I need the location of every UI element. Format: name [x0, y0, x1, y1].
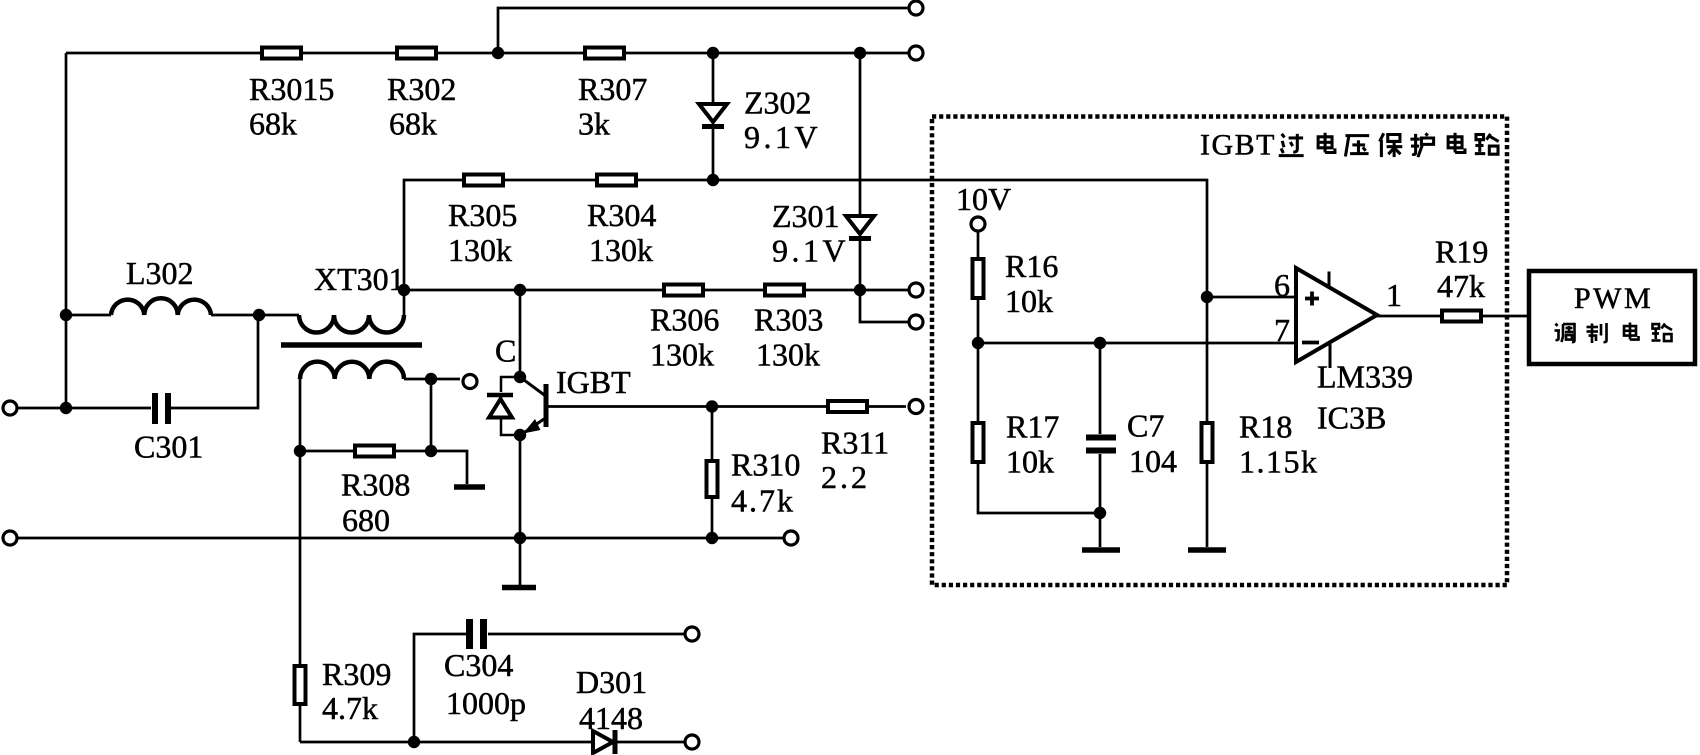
node C304 branch bottom	[408, 736, 420, 748]
label Z302 9.1V	[744, 85, 821, 156]
label C7 104	[1127, 408, 1177, 480]
node C7 top	[1094, 337, 1106, 349]
svg-text:R308: R308	[341, 467, 410, 503]
node C7 bottom	[1094, 507, 1106, 519]
svg-text:1: 1	[1386, 277, 1402, 313]
svg-text:R307: R307	[578, 71, 647, 107]
RESISTOR BOXES	[262, 48, 1481, 705]
wire bottom rail	[17, 537, 783, 540]
resistor R303	[765, 285, 804, 296]
resistor R305	[464, 175, 503, 186]
node Z301 top	[854, 47, 866, 59]
terminal fourth rail	[909, 283, 923, 297]
terminal D301	[685, 735, 699, 749]
wire emitter ground stem	[519, 538, 522, 585]
resistor R304	[597, 175, 636, 186]
svg-text:R310: R310	[731, 447, 800, 483]
ground below R308	[454, 484, 485, 490]
svg-text:6: 6	[1274, 267, 1290, 303]
svg-text:D301: D301	[576, 664, 647, 700]
svg-text:68k: 68k	[249, 106, 297, 142]
svg-text:L302: L302	[126, 255, 194, 291]
svg-text:1.15k: 1.15k	[1239, 444, 1319, 480]
svg-text:680: 680	[342, 502, 390, 538]
node IGBT emitter	[514, 429, 526, 441]
svg-text:130k: 130k	[650, 337, 714, 373]
wire IGBT gate to R311 terminal	[546, 405, 906, 408]
svg-text:47k: 47k	[1437, 268, 1485, 304]
svg-text:R3015: R3015	[249, 71, 334, 107]
node IGBT collector	[514, 371, 526, 383]
label R303 130k	[754, 302, 823, 373]
wire IGBT collector vertical	[519, 290, 522, 377]
terminal bottom rail right	[784, 531, 798, 545]
label Z301 9.1V	[772, 198, 849, 269]
terminal gate connector	[463, 375, 477, 389]
wire IGBT emitter vertical	[519, 435, 522, 538]
svg-text:1000p: 1000p	[446, 685, 526, 721]
svg-text:9.1V: 9.1V	[744, 119, 821, 155]
wire third rail (R305/R304 to comparator + input)	[404, 180, 1207, 297]
wire Z302 branch	[712, 53, 715, 180]
svg-text:10k: 10k	[1005, 283, 1053, 319]
svg-text:R19: R19	[1435, 234, 1488, 270]
transformer XT301 primary winding	[299, 315, 404, 333]
capacitor C7 plates	[1086, 435, 1116, 454]
svg-text:C301: C301	[134, 429, 203, 465]
wire comparator plus input	[1207, 296, 1296, 299]
label R3015 68k	[249, 71, 334, 142]
label R17 10k	[1006, 409, 1059, 480]
label C304 1000p	[444, 647, 526, 721]
svg-text:2.2: 2.2	[821, 459, 870, 495]
label R16 10k	[1005, 248, 1058, 319]
wire Z301 branch	[860, 53, 908, 322]
wire XT301 primary to rail	[403, 290, 406, 315]
resistor R19	[1442, 311, 1481, 322]
svg-text:C304: C304	[444, 647, 513, 683]
resistor R18	[1202, 423, 1213, 462]
svg-text:104: 104	[1129, 443, 1177, 479]
wire C304 branch	[414, 634, 684, 742]
transformer XT301 core bar	[281, 342, 422, 348]
resistor R302	[397, 48, 436, 59]
wire C7 ground stem	[1099, 513, 1102, 547]
terminal bottom rail left	[3, 531, 17, 545]
wire fourth rail (collector rail)	[404, 289, 908, 292]
resistor R309	[295, 666, 306, 704]
svg-text:C: C	[495, 333, 516, 369]
wire L302 to XT301 primary	[259, 314, 299, 317]
label title IGBT over-voltage protection	[1200, 129, 1499, 162]
svg-text:130k: 130k	[448, 232, 512, 268]
label R18 1.15k	[1239, 409, 1319, 480]
svg-text:R302: R302	[387, 71, 456, 107]
resistor R306	[664, 285, 703, 296]
svg-text:4.7k: 4.7k	[731, 483, 795, 519]
node collector rail / IGBT branch	[514, 284, 526, 296]
transistor Q1 IGBT with body diode	[487, 377, 546, 435]
IGBT protection dotted box	[932, 117, 1507, 586]
svg-text:LM339: LM339	[1317, 359, 1413, 395]
wire R17 branch	[978, 300, 1100, 513]
svg-text:R17: R17	[1006, 409, 1059, 445]
label R19 47k	[1435, 234, 1488, 305]
ground below IGBT emitter	[502, 585, 536, 591]
node top rail / R302 junction	[492, 47, 504, 59]
label LM339 IC3B	[1317, 359, 1413, 436]
resistor R310	[707, 461, 718, 497]
node R16/R17 minus input	[972, 337, 984, 349]
wire comparator minus rail	[978, 342, 1296, 345]
wire bottom-most rail	[300, 741, 684, 744]
node Z302 bottom on third rail	[707, 174, 719, 186]
svg-text:4148: 4148	[579, 700, 643, 736]
wire second rail	[66, 52, 908, 55]
node Z301 bottom on fourth rail	[854, 284, 866, 296]
label D301 4148	[576, 664, 647, 736]
svg-text:10k: 10k	[1006, 444, 1054, 480]
svg-text:10V: 10V	[956, 181, 1011, 217]
svg-text:IC3B: IC3B	[1317, 400, 1386, 436]
wire C301 leads	[17, 315, 258, 408]
label R309 4.7k	[322, 656, 391, 726]
node R310 bottom	[706, 532, 718, 544]
svg-text:C7: C7	[1127, 408, 1164, 444]
label R306 130k	[650, 302, 719, 373]
ground below R18	[1188, 547, 1226, 553]
label PWM modulation circuit	[1555, 282, 1673, 343]
terminal 10V supply	[971, 217, 985, 231]
zener diode Z302	[699, 104, 727, 127]
svg-text:XT301: XT301	[314, 261, 405, 297]
node gate / R310 top	[706, 400, 718, 412]
wire left vertical bus	[65, 53, 68, 408]
wire R308 row	[300, 451, 467, 484]
label R302 68k	[387, 71, 456, 142]
terminal top rail	[909, 1, 923, 15]
terminal C304	[685, 627, 699, 641]
wire top rail to terminal	[498, 8, 908, 53]
terminal C301 left	[3, 401, 17, 415]
ground below C7	[1082, 547, 1120, 553]
wire R18 branch to ground	[1206, 297, 1209, 547]
svg-text:R305: R305	[448, 197, 517, 233]
svg-text:R18: R18	[1239, 409, 1292, 445]
label R310 4.7k	[731, 447, 800, 519]
wire comparator output to PWM	[1377, 315, 1527, 318]
svg-text:R311: R311	[821, 425, 889, 461]
wire L302 leads	[66, 314, 259, 317]
svg-text:Z301: Z301	[772, 198, 840, 234]
node Z302 top	[707, 47, 719, 59]
svg-text:R16: R16	[1005, 248, 1058, 284]
wire XT301 secondary to gate connector	[404, 378, 460, 381]
capacitor C304 plates	[466, 619, 487, 649]
PWM block box	[1529, 271, 1695, 364]
resistor R16	[973, 259, 984, 298]
zener diode Z301	[846, 216, 874, 239]
transformer XT301 secondary winding	[300, 362, 404, 379]
wire C7 branch	[1099, 343, 1102, 513]
resistor R308	[355, 446, 394, 457]
wire secondary left vertical down through R309	[299, 379, 302, 742]
svg-text:3k: 3k	[578, 106, 610, 142]
svg-text:68k: 68k	[389, 106, 437, 142]
svg-text:R304: R304	[587, 197, 656, 233]
node R308 left	[294, 445, 306, 457]
op-amp U1 LM339 triangle	[1296, 268, 1377, 368]
svg-text:IGBT: IGBT	[556, 364, 631, 400]
node XT301 primary top	[398, 284, 410, 296]
svg-text:R303: R303	[754, 302, 823, 338]
node C301 left	[60, 402, 72, 414]
svg-text:IGBT: IGBT	[1200, 129, 1276, 162]
terminal second rail	[909, 46, 923, 60]
label R308 680	[341, 467, 410, 539]
inductor L302	[111, 298, 211, 315]
node emitter on bottom rail	[514, 532, 526, 544]
svg-text:7: 7	[1274, 312, 1290, 348]
svg-text:R306: R306	[650, 302, 719, 338]
svg-text:PWM: PWM	[1574, 282, 1653, 315]
node L302 left	[60, 309, 72, 321]
resistor R311	[828, 401, 867, 412]
capacitor C301 plates	[152, 393, 171, 424]
node L302 right	[253, 309, 265, 321]
node plus input / R18 top	[1201, 291, 1213, 303]
label R311 2.2	[821, 425, 889, 496]
terminal gate rail	[909, 400, 923, 414]
label R305 130k	[448, 197, 517, 268]
svg-text:4.7k: 4.7k	[322, 690, 378, 726]
svg-text:9.1V: 9.1V	[772, 233, 849, 269]
svg-text:R309: R309	[322, 656, 391, 692]
wire 10V stem	[977, 231, 980, 259]
resistor R17	[973, 423, 984, 462]
diode D301	[593, 730, 615, 754]
resistor R3015	[262, 48, 301, 59]
wire secondary right vertical	[430, 379, 433, 451]
svg-text:130k: 130k	[589, 232, 653, 268]
terminal Z301 stub	[909, 315, 923, 329]
node R308 right	[425, 445, 437, 457]
label R304 130k	[587, 197, 656, 268]
resistor R307	[585, 48, 624, 59]
node secondary right	[425, 373, 437, 385]
TERMINALS	[3, 1, 985, 749]
label R307 3k	[578, 71, 647, 142]
svg-text:130k: 130k	[756, 337, 820, 373]
svg-text:Z302: Z302	[744, 85, 812, 121]
wire R310 branch	[711, 407, 714, 539]
